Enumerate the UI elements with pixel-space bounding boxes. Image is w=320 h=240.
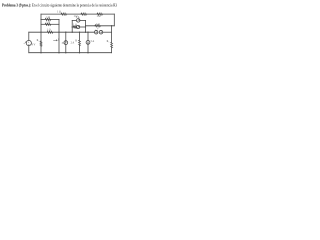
svg-text:1 Ω: 1 Ω	[46, 16, 50, 19]
svg-text:− +: − +	[95, 28, 99, 31]
svg-text:1 Ω: 1 Ω	[47, 29, 51, 32]
svg-text:1 Ω: 1 Ω	[97, 15, 101, 18]
svg-text:1 Ω: 1 Ω	[96, 23, 100, 26]
svg-text:R₃: R₃	[107, 40, 110, 43]
svg-text:5 A: 5 A	[91, 40, 95, 43]
svg-text:1 Ω: 1 Ω	[57, 10, 61, 13]
svg-text:9 V: 9 V	[32, 43, 36, 46]
svg-text:R: R	[75, 39, 77, 42]
svg-text:I: I	[58, 39, 59, 42]
svg-text:3 A: 3 A	[62, 42, 66, 45]
svg-text:R₄: R₄	[37, 39, 40, 42]
svg-text:Problema 3 (9 ptos.): En el ci: Problema 3 (9 ptos.): En el circuito sig…	[2, 3, 117, 7]
svg-text:2 A: 2 A	[71, 42, 75, 45]
svg-text:2 A: 2 A	[76, 16, 80, 19]
svg-text:1 Ω: 1 Ω	[73, 24, 77, 27]
svg-text:1 Ω: 1 Ω	[46, 21, 50, 24]
